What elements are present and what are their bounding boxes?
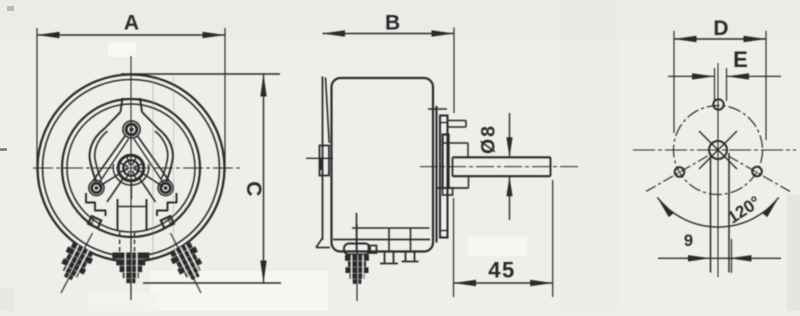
dimension C arrow top (260, 74, 266, 97)
rear radial chain line left (646, 156, 708, 192)
svg-text:E: E (733, 47, 748, 72)
scan tick left edge (0, 148, 7, 151)
side view partition 1 (356, 213, 358, 251)
svg-text:9: 9 (684, 232, 693, 250)
rotor arm down (130, 181, 132, 199)
dimension 120 arc (657, 197, 778, 227)
shaft centerline (420, 166, 579, 168)
hub spokes (134, 169, 143, 172)
dimension C extension line bottom (143, 282, 281, 284)
front view outer case inner rim circle (43, 80, 220, 257)
side view base plate line (352, 227, 430, 229)
dimension B arrow right (432, 30, 455, 36)
svg-text:Ø8: Ø8 (478, 124, 500, 154)
yoke neck right edge (140, 98, 142, 112)
flange ear inner cap bottom (440, 230, 448, 232)
rotor arm to right rivet (144, 174, 164, 187)
flange back plate (435, 106, 437, 243)
shaft bottom edge (453, 175, 551, 177)
dimension d8 lower arrow line (509, 176, 511, 220)
centre terminal bracket right edge (146, 199, 148, 231)
side view bottom inner line (333, 239, 430, 241)
side view terminal bracket (344, 244, 370, 255)
dimension A arrow left (37, 32, 60, 38)
yoke right shoulder (142, 112, 158, 129)
dimension D arrow left (674, 36, 697, 42)
front view cover ring outer circle (62, 99, 200, 237)
rear shaft hole (709, 141, 727, 159)
dimension E extension right (726, 68, 728, 101)
hub outer circle (118, 155, 144, 181)
dimension d8 upper arrow line (509, 113, 511, 157)
centre terminal hidden line right (134, 232, 136, 254)
right step bracket (157, 193, 177, 216)
paper shading patches (0, 0, 800, 40)
rear slot edge right (728, 153, 730, 273)
right clamp clip (161, 216, 174, 228)
dimension C extension line top (121, 73, 280, 75)
dimension 45 white patch (468, 237, 527, 256)
flange ear inner cap top (440, 122, 448, 124)
rear view vertical centerline (717, 63, 719, 277)
scan fold line 2 (173, 76, 175, 258)
spring strap top-to-left line (93, 136, 126, 182)
dimension B arrow left (323, 30, 346, 36)
side view bracket foot (316, 238, 323, 248)
dimension d8 arrow down (506, 137, 512, 157)
dimension A arrow right (203, 32, 226, 38)
svg-text:C: C (242, 181, 265, 196)
side view body outline (332, 78, 434, 252)
dimension 9 extension right (731, 239, 733, 273)
rear mounting hole right (752, 167, 762, 177)
svg-text:B: B (385, 12, 400, 35)
scan fold line 1 (152, 74, 154, 262)
dimension C arrow bottom (260, 261, 266, 284)
left terminal axis line (61, 233, 93, 293)
side view bracket centerline tick (306, 157, 333, 159)
centre terminal bracket bar (118, 206, 147, 208)
yoke left shoulder (105, 112, 121, 129)
side view terminal square (369, 246, 377, 254)
dimension 9 arrow left (688, 255, 711, 261)
rear shaft hole cross 1 (699, 131, 737, 169)
right leaf spring inner arc (155, 131, 168, 179)
rear radial chain line right (728, 156, 790, 192)
dimension 45 extension left (453, 198, 455, 297)
left leaf spring inner arc (95, 131, 108, 179)
dimension D arrow right (744, 36, 767, 42)
bushing collar top (443, 142, 468, 144)
bushing lower cap (443, 188, 453, 195)
locating pin (448, 120, 467, 122)
left screw terminal (55, 241, 96, 285)
front view outer case circle (38, 75, 225, 262)
dimension E line right (727, 75, 782, 77)
svg-text:45: 45 (488, 257, 515, 282)
shaft top edge (453, 156, 551, 158)
dimension 45 line (454, 282, 553, 284)
svg-text:A: A (124, 12, 139, 35)
dimension D extension right (765, 31, 767, 140)
yoke neck left edge (121, 98, 123, 112)
right rivet ring (158, 180, 173, 195)
side view bracket tab (320, 146, 330, 176)
dimension 45 arrow right (530, 280, 553, 286)
dimension E extension left (714, 68, 716, 101)
rotor arm to left rivet (99, 174, 119, 187)
spring strap top-to-left inner line (98, 139, 129, 185)
left rivet ring (89, 180, 104, 195)
side view mounting bracket edge (322, 77, 324, 241)
dimension D extension left (673, 31, 675, 133)
centre terminal axis line (130, 233, 132, 299)
right leaf spring outer arc (158, 129, 173, 182)
hub inner circle (123, 160, 139, 176)
bushing body (443, 135, 449, 189)
dimension 9 line (658, 257, 781, 259)
side view screw terminal (345, 255, 369, 261)
front view vertical centerline (130, 56, 132, 300)
dimension C line (263, 74, 265, 283)
shaft end face (550, 157, 552, 176)
dimension A extension line left (36, 28, 38, 172)
front view horizontal centerline (33, 167, 240, 169)
rear shaft hole cross 2 (699, 131, 737, 169)
rear mounting hole left (675, 167, 685, 177)
rotor arm down-right (140, 179, 156, 203)
dimension 120 arrow left (657, 197, 673, 217)
dimension E arrow right (727, 73, 750, 79)
centre screw terminal (112, 253, 149, 259)
flange ear plate (440, 116, 448, 238)
dimension A line (37, 34, 225, 36)
flange top line (428, 108, 447, 110)
centre terminal hidden line left (119, 232, 121, 254)
rear slot edge left (710, 153, 712, 273)
side view solder lug 2 (405, 252, 407, 262)
dimension 45 arrow left (454, 280, 477, 286)
rear view bolt circle (674, 106, 763, 195)
bushing collar bottom (437, 187, 469, 189)
rear locating hole top (713, 99, 723, 109)
right terminal axis line (171, 233, 202, 293)
left clamp clip (88, 216, 101, 228)
dimension A extension line right (224, 28, 226, 172)
left leaf spring outer arc (90, 129, 105, 182)
dimension d8 arrow up (506, 176, 512, 196)
rotor arm down-left (107, 179, 123, 203)
side view bracket wedge (326, 78, 330, 144)
spring strap top-to-right line (138, 136, 170, 182)
dimension B extension right (453, 28, 455, 114)
side view solder lug 1 (384, 252, 386, 264)
dimension D line (674, 38, 766, 40)
dimension E arrow left (692, 73, 715, 79)
dimension E line left (668, 75, 715, 77)
side view partition 3 (410, 228, 412, 252)
rear view horizontal centerline (633, 149, 796, 151)
side view partition 2 (388, 228, 390, 252)
hub flange arc (113, 164, 149, 185)
dimension B line (323, 33, 455, 35)
front view paper patch (0, 0, 1, 1)
left step bracket (86, 193, 106, 216)
scan speck top-left (7, 6, 14, 11)
dimension 9 arrow right (729, 255, 752, 261)
spring strap top-to-right inner line (134, 139, 165, 185)
dimension 45 extension right (552, 180, 554, 297)
centre terminal bracket left edge (117, 199, 119, 231)
dimension 120 arrow right (762, 197, 778, 217)
top rivet ring (123, 121, 140, 138)
side view terminal axis line (356, 224, 358, 301)
right screw terminal (168, 241, 209, 285)
svg-text:D: D (713, 17, 728, 40)
front view cover ring inner circle (67, 104, 195, 232)
shaft start face (452, 157, 454, 176)
